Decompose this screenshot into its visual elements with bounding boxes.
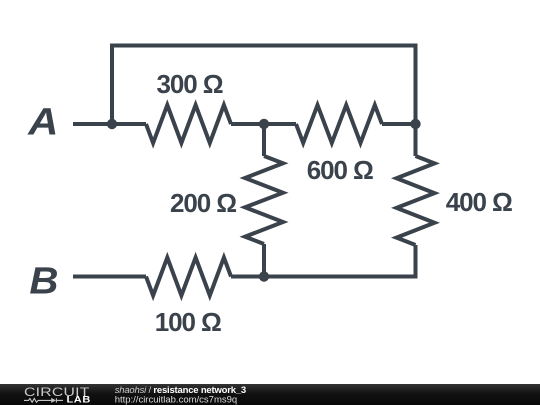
wire middle node to R2 <box>264 122 296 126</box>
svg-text:200 Ω: 200 Ω <box>170 188 236 218</box>
wire R3 to bottom node <box>262 244 266 277</box>
resistor R5 100 ohm zigzag <box>146 258 231 296</box>
wire R1 to middle node <box>231 122 264 126</box>
svg-text:600 Ω: 600 Ω <box>307 155 373 185</box>
resistor R1 300 ohm zigzag <box>146 105 231 143</box>
logo diode triangle <box>51 398 56 403</box>
resistor R2 600 ohm zigzag <box>296 105 382 143</box>
wire node A lead <box>73 122 112 126</box>
junction node right top <box>410 119 420 129</box>
svg-text:300 Ω: 300 Ω <box>157 69 223 99</box>
svg-text:400 Ω: 400 Ω <box>446 187 512 217</box>
wire R4 bottom to bottom rail <box>264 245 416 277</box>
svg-text:A: A <box>27 101 58 143</box>
wire right node down to R4 <box>414 124 418 156</box>
wire node B lead <box>73 275 146 279</box>
junction node bottom <box>259 271 269 281</box>
resistor R3 200 ohm zigzag <box>245 156 283 244</box>
svg-text:http://circuitlab.com/cs7ms9q: http://circuitlab.com/cs7ms9q <box>115 394 238 405</box>
wire A junction to R1 <box>112 122 146 126</box>
svg-text:LAB: LAB <box>67 395 91 405</box>
logo resistor-diode squiggle <box>24 398 63 402</box>
wire R2 to right node <box>382 122 416 126</box>
footer bar <box>0 384 540 405</box>
junction node at A <box>107 119 117 129</box>
resistor R4 400 ohm zigzag <box>397 156 435 245</box>
svg-text:B: B <box>29 261 58 303</box>
wire middle node down to R3 <box>262 124 266 156</box>
wire top bypass loop <box>112 46 416 125</box>
wire R5 to bottom node <box>231 275 264 279</box>
svg-text:100 Ω: 100 Ω <box>155 307 221 337</box>
junction node middle top <box>259 119 269 129</box>
